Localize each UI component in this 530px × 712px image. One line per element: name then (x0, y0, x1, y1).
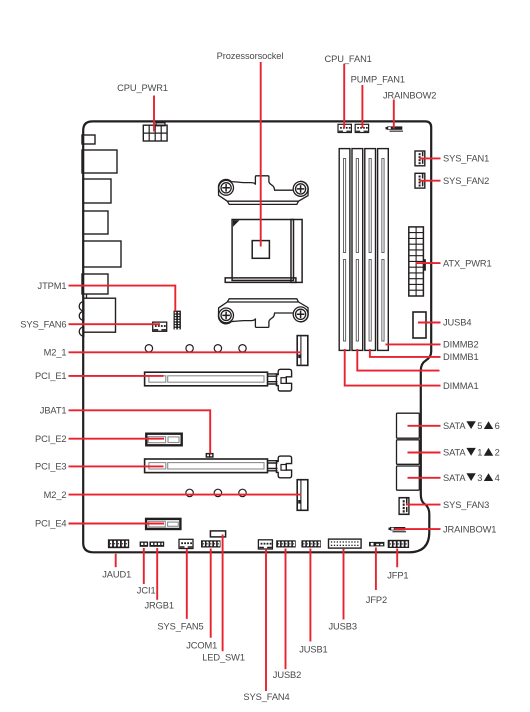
leader JAUD1 (115, 554, 117, 567)
connector ATX_PWR1 (409, 227, 426, 296)
svg-text:SYS_FAN2: SYS_FAN2 (443, 176, 489, 186)
header JFP1 (388, 540, 409, 548)
svg-text:PCI_E1: PCI_E1 (35, 371, 66, 381)
M2_1 standoff holes (145, 345, 246, 352)
svg-text:PCI_E4: PCI_E4 (35, 519, 66, 529)
connector SYS_FAN4 (258, 540, 272, 549)
svg-text:5: 5 (477, 421, 482, 431)
DIMM slots (339, 149, 388, 351)
IO port 6 (82, 274, 108, 294)
cooler bracket bottom (mirror) (218, 299, 308, 328)
leader SYS_FAN2 (420, 180, 441, 182)
svg-text:DIMMB2: DIMMB2 (443, 340, 479, 350)
IO port big 5 (83, 241, 121, 267)
label SATA 3/4 (443, 473, 500, 483)
connector SYS_FAN3 (399, 498, 409, 515)
svg-text:JTPM1: JTPM1 (38, 281, 67, 291)
leader SYS_FAN6 (69, 323, 161, 325)
cooler bracket top (218, 176, 308, 205)
svg-text:DIMMB1: DIMMB1 (443, 352, 479, 362)
svg-text:M2_2: M2_2 (44, 490, 67, 500)
leader PCI_E3 (69, 465, 164, 467)
connector SYS_FAN5 (179, 539, 193, 548)
connector PUMP_FAN1 (355, 124, 368, 132)
header JFP2 (369, 542, 384, 547)
svg-text:CPU_PWR1: CPU_PWR1 (117, 83, 168, 93)
board outline (83, 121, 431, 552)
leader JUSB2 (285, 549, 287, 670)
connector JRAINBOW1 (389, 527, 407, 532)
svg-text:JCOM1: JCOM1 (186, 641, 217, 651)
jumper JBAT1 (206, 453, 214, 458)
leader JCI1 (143, 548, 145, 584)
IO audio stack 7 (79, 295, 115, 337)
header JUSB2 (276, 540, 296, 547)
SATA 1/2 (397, 440, 420, 465)
PCI_E2 slot (146, 434, 181, 446)
IO port 4 (83, 211, 108, 234)
svg-text:2: 2 (495, 448, 500, 458)
leader JUSB4 (418, 322, 441, 324)
leader JFP2 (375, 548, 377, 591)
IO port big 2 (82, 150, 117, 173)
svg-text:JUSB4: JUSB4 (443, 318, 471, 328)
svg-text:JRAINBOW1: JRAINBOW1 (443, 524, 496, 534)
M2_2 standoff holes (186, 489, 246, 496)
svg-text:1: 1 (477, 448, 482, 458)
PCI_E3 slot (145, 459, 268, 473)
svg-text:JBAT1: JBAT1 (40, 406, 67, 416)
SATA 3/4 (397, 466, 420, 490)
IO port 3 (83, 179, 111, 203)
leader JRGB1 (156, 548, 158, 600)
connector JRAINBOW2 (386, 126, 404, 131)
svg-text:4: 4 (495, 473, 500, 483)
svg-text:SATA: SATA (443, 473, 466, 483)
leader SATA 5/6 (408, 425, 441, 427)
switch LED_SW1 (210, 531, 225, 537)
svg-text:SYS_FAN4: SYS_FAN4 (243, 692, 289, 702)
svg-text:JRGB1: JRGB1 (145, 600, 174, 610)
svg-text:SYS_FAN5: SYS_FAN5 (157, 622, 203, 632)
header JTPM1 (174, 311, 181, 330)
leader CPU_FAN1 (343, 64, 345, 128)
svg-text:SATA: SATA (443, 448, 466, 458)
IO port small 1 (82, 135, 95, 144)
leader PUMP_FAN1 (361, 85, 363, 128)
M2_2 connector (297, 480, 308, 511)
leader SYS_FAN5 (186, 549, 188, 619)
label SATA 5/6 (443, 421, 500, 431)
leader JUSB1 (309, 549, 311, 642)
svg-text:JUSB1: JUSB1 (299, 644, 327, 654)
header JUSB1 (301, 540, 321, 547)
leader JTPM1 (69, 286, 176, 312)
svg-text:JAUD1: JAUD1 (102, 569, 131, 579)
connector SYS_FAN6 (153, 322, 167, 331)
connector CPU_PWR1 (143, 123, 167, 141)
header JCOM1 (201, 540, 221, 547)
svg-text:JCI1: JCI1 (137, 585, 156, 595)
svg-text:SATA: SATA (443, 421, 466, 431)
leader DIMMB1 (370, 349, 441, 357)
leader Prozessorsockel (260, 62, 262, 247)
leader SATA 3/4 (408, 477, 441, 479)
leader JFP1 (396, 549, 398, 568)
connector SYS_FAN2 (415, 173, 425, 188)
leader JRAINBOW1 (395, 528, 441, 530)
svg-text:Prozessorsockel: Prozessorsockel (217, 51, 284, 61)
svg-text:JFP1: JFP1 (387, 571, 408, 581)
leader SYS_FAN4 (265, 549, 267, 691)
svg-text:DIMMA1: DIMMA1 (443, 381, 479, 391)
leader JCOM1 (210, 549, 212, 638)
svg-text:6: 6 (495, 421, 500, 431)
svg-text:JUSB3: JUSB3 (329, 621, 357, 631)
svg-text:LED_SW1: LED_SW1 (202, 653, 245, 663)
PCI_E3 latch (268, 456, 292, 478)
svg-text:SYS_FAN1: SYS_FAN1 (443, 154, 489, 164)
svg-text:PCI_E3: PCI_E3 (35, 462, 66, 472)
leader JRAINBOW2 (393, 100, 395, 129)
leader PCI_E4 (69, 523, 165, 525)
leader JBAT1 (69, 410, 211, 453)
leader PCI_E2 (69, 438, 165, 440)
leader SYS_FAN1 (420, 157, 441, 159)
svg-text:PCI_E2: PCI_E2 (35, 434, 66, 444)
SATA 5/6 (397, 413, 420, 438)
svg-text:CPU_FAN1: CPU_FAN1 (325, 54, 372, 64)
svg-text:M2_1: M2_1 (44, 348, 67, 358)
leader ATX_PWR1 (416, 262, 441, 264)
header JRGB1 (149, 542, 164, 547)
bottom row: header JAUD1 (108, 539, 129, 548)
M2_1 connector (297, 336, 308, 366)
svg-text:SYS_FAN3: SYS_FAN3 (443, 500, 489, 510)
svg-text:3: 3 (477, 473, 482, 483)
PCI_E4 slot (146, 519, 180, 529)
leader M2_1 (69, 351, 302, 353)
connector SYS_FAN1 (415, 151, 425, 166)
svg-text:ATX_PWR1: ATX_PWR1 (443, 258, 492, 268)
header JCI1 (140, 542, 149, 547)
svg-text:SYS_FAN6: SYS_FAN6 (20, 319, 66, 329)
svg-text:JRAINBOW2: JRAINBOW2 (383, 91, 436, 101)
leader PCI_E1 (69, 375, 164, 377)
svg-text:JFP2: JFP2 (366, 595, 387, 605)
PCI_E1 latch (268, 369, 292, 391)
leader JUSB3 (343, 549, 345, 620)
cpu socket (225, 220, 302, 283)
leader DIMMA2 (unlabeled) (357, 349, 439, 371)
connector CPU_FAN1 (338, 124, 351, 132)
header JUSB3 (329, 539, 362, 548)
label SATA 1/2 (443, 448, 500, 458)
leader SYS_FAN3 (406, 504, 441, 506)
leader DIMMB2 (386, 343, 441, 345)
connector JUSB4 (413, 312, 426, 338)
PCI_E1 slot (145, 372, 268, 386)
leader SATA 1/2 (408, 452, 441, 454)
leader M2_2 (69, 494, 302, 496)
svg-text:JUSB2: JUSB2 (273, 670, 301, 680)
leader CPU_PWR1 (153, 96, 155, 132)
leader LED_SW1 (222, 535, 224, 652)
svg-text:PUMP_FAN1: PUMP_FAN1 (351, 75, 405, 85)
leader DIMMA1 (345, 349, 441, 386)
